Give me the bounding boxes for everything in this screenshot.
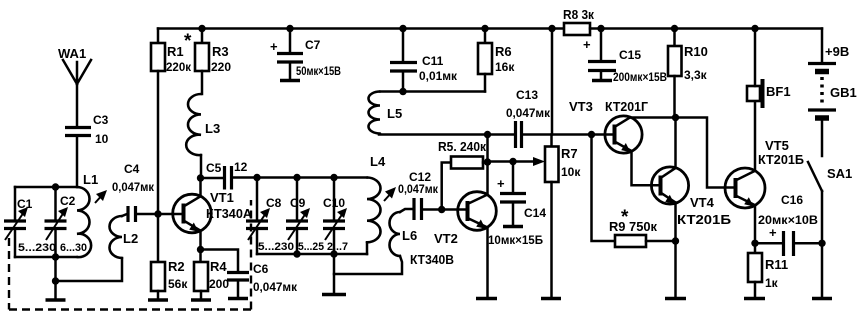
resistor R9 750k: [592, 135, 676, 248]
ground tank: [46, 281, 66, 300]
svg-text:R8 3к: R8 3к: [563, 7, 594, 22]
wire collector node to VT5 base: [676, 118, 736, 188]
resistor R2 56k: [151, 214, 188, 299]
ground R4: [191, 298, 211, 302]
resistor R4 200: [194, 259, 229, 299]
power rail right segment: [590, 27, 822, 30]
resistor R6 16k: [478, 29, 515, 92]
svg-text:С11: С11: [422, 54, 444, 68]
resistor R1 220k: [151, 29, 192, 215]
svg-text:C9: C9: [290, 196, 306, 210]
L4 tuning arrow: [384, 187, 396, 201]
inductor L1: [77, 172, 98, 257]
ground C15: [592, 79, 612, 83]
junction emitter C16 R11: [751, 240, 758, 247]
inductor L5: [369, 92, 403, 134]
capacitor C3 10: [65, 113, 109, 146]
junction rail R6: [481, 25, 488, 32]
svg-text:WA1: WA1: [58, 46, 86, 61]
svg-text:0,047мк: 0,047мк: [398, 184, 438, 196]
svg-text:20мк×10В: 20мк×10В: [758, 215, 818, 227]
svg-text:5...25: 5...25: [298, 241, 324, 253]
svg-text:R9 750к: R9 750к: [609, 219, 657, 234]
inductor L3: [186, 94, 220, 155]
svg-text:КТ340А: КТ340А: [206, 206, 253, 221]
wire VT3 emitter to VT4 base: [632, 151, 661, 185]
wire collector node to C14 and R7 wiper: [488, 160, 536, 163]
junction rail C15: [597, 25, 604, 32]
junction C2 top: [52, 183, 59, 190]
inductor L6: [334, 209, 417, 274]
svg-text:R10: R10: [684, 44, 708, 59]
svg-text:КТ201Б: КТ201Б: [677, 212, 731, 227]
svg-text:+: +: [769, 225, 777, 240]
resistor R3 220: [195, 29, 231, 95]
wire C3 to L1 top: [76, 137, 79, 187]
svg-text:L2: L2: [123, 231, 138, 246]
wire C4 to VT1 base: [136, 213, 184, 216]
wire L2 top to C4: [122, 214, 128, 216]
junction rail R10: [671, 25, 678, 32]
variable capacitor C1 5...230: [4, 197, 56, 254]
svg-text:10к: 10к: [561, 165, 581, 179]
L1 tuning arrow: [95, 190, 107, 203]
capacitor C6 0,047mk: [227, 262, 297, 297]
inductor L4: [367, 154, 386, 254]
svg-text:КТ201Г: КТ201Г: [605, 99, 649, 114]
svg-text:C12: C12: [409, 170, 431, 184]
wire VT2 collector: [486, 135, 489, 195]
svg-text:L3: L3: [205, 121, 220, 136]
transistor VT2 KT340V: [410, 192, 496, 267]
svg-text:R2: R2: [168, 259, 185, 274]
svg-text:3,3к: 3,3к: [684, 68, 708, 82]
wire L5 top to R6: [380, 90, 485, 93]
junction collector IF node: [484, 131, 491, 138]
svg-text:КТ201Б: КТ201Б: [758, 152, 804, 167]
inductor L2: [110, 216, 139, 258]
svg-text:VT1: VT1: [210, 190, 234, 205]
junction rail C11: [399, 25, 406, 32]
potentiometer R7 10k: [545, 135, 581, 298]
wire VT5 collector to BF1: [754, 101, 757, 171]
svg-text:0,047мк: 0,047мк: [253, 282, 297, 294]
ground C7: [280, 79, 300, 83]
svg-text:L6: L6: [402, 228, 417, 243]
capacitor C11 0,01mk: [390, 29, 457, 92]
battery GB1 +9V: [808, 44, 857, 156]
svg-text:0,047мк: 0,047мк: [112, 182, 154, 194]
wire antenna to C3: [76, 84, 79, 126]
wire tank bottom edge: [15, 256, 77, 259]
ground R7: [541, 297, 561, 301]
wire emitter to C6: [201, 250, 239, 272]
ground R11: [744, 297, 765, 301]
svg-text:C10: C10: [323, 196, 345, 210]
svg-text:0,01мк: 0,01мк: [419, 71, 457, 83]
transistor VT5 KT201B: [725, 138, 804, 208]
resistor R5 240k: [438, 139, 488, 210]
ground VT2: [476, 297, 497, 301]
svg-text:C1: C1: [17, 197, 33, 211]
trimmer capacitor C9 5...25: [286, 178, 324, 255]
resistor R10 3,3k: [668, 29, 708, 118]
svg-text:2...7: 2...7: [327, 241, 348, 253]
svg-text:L1: L1: [83, 172, 98, 187]
svg-text:C5: C5: [206, 161, 222, 175]
antenna WA1: [58, 46, 91, 84]
junction emitter node: [197, 246, 204, 253]
svg-text:C2: C2: [60, 194, 76, 208]
wire C12 to VT2 base: [422, 208, 468, 211]
svg-text:VT2: VT2: [434, 231, 458, 246]
junction C10 bottom ground stub: [330, 250, 337, 257]
power rail left segment: [158, 27, 564, 30]
junction C10 top: [330, 174, 337, 181]
svg-text:220к: 220к: [166, 60, 192, 74]
junction base node R1 R2: [154, 210, 161, 217]
dashed gang link C1-C8: [9, 200, 251, 310]
svg-text:12: 12: [234, 160, 248, 174]
trimmer capacitor C10 2...7: [323, 178, 348, 255]
svg-text:GB1: GB1: [830, 85, 857, 100]
svg-text:16к: 16к: [495, 60, 515, 74]
capacitor C7 50mk x 15V: [270, 29, 341, 80]
wire rail to R7 top: [551, 29, 554, 135]
svg-text:5...230: 5...230: [258, 241, 294, 253]
capacitor C4 0,047mk: [112, 162, 154, 222]
svg-text:R3: R3: [212, 44, 229, 59]
svg-text:10: 10: [95, 132, 109, 146]
junction C11 bottom L5: [399, 88, 406, 95]
junction rail R8 left: [548, 25, 555, 32]
capacitor C16 20mk x 10V: [755, 193, 822, 256]
junction collector R5 node: [484, 158, 491, 165]
svg-text:С13: С13: [516, 88, 538, 102]
junction rail C7: [286, 25, 293, 32]
junction R9 VT4 emitter: [672, 237, 679, 244]
svg-text:200: 200: [209, 277, 229, 291]
svg-text:6...30: 6...30: [60, 242, 87, 254]
svg-text:L5: L5: [387, 106, 402, 121]
junction VT3 base R9: [588, 131, 595, 138]
ground C14: [503, 225, 523, 229]
wire L2 bottom to ground node: [56, 258, 123, 281]
capacitor C13 0,047mk: [506, 88, 550, 148]
svg-text:КТ340В: КТ340В: [410, 252, 454, 267]
resistor R8 3k: [563, 7, 594, 35]
junction VT2 base R5: [438, 206, 445, 213]
ground VT4: [665, 297, 686, 301]
svg-text:C14: C14: [524, 206, 546, 220]
junction collectors R10: [672, 114, 679, 121]
svg-text:BF1: BF1: [766, 84, 791, 99]
wire VT4 emitter to ground: [674, 203, 677, 298]
svg-text:R4: R4: [210, 259, 227, 274]
ground SA1: [812, 297, 832, 301]
R7 wiper arrowhead: [533, 157, 545, 166]
transistor VT1 KT340A: [173, 190, 253, 233]
switch SA1: [808, 162, 852, 297]
svg-text:+9В: +9В: [825, 44, 849, 59]
wire IF line L5 to VT3 base: [379, 133, 615, 136]
wire C5 to tank top rail: [232, 176, 368, 179]
svg-text:50мк×15В: 50мк×15В: [296, 66, 341, 78]
svg-text:R5. 240к: R5. 240к: [438, 139, 486, 154]
svg-text:C7: C7: [305, 38, 321, 52]
svg-text:VT4: VT4: [690, 195, 715, 210]
capacitor C15 200mk x 15V: [583, 29, 667, 85]
transistor VT3 KT201G: [569, 99, 649, 153]
svg-text:56к: 56к: [168, 277, 188, 291]
svg-text:5...230: 5...230: [18, 242, 56, 254]
svg-text:R1: R1: [167, 44, 184, 59]
svg-text:*: *: [184, 31, 192, 52]
svg-text:+: +: [497, 176, 505, 191]
variable capacitor C8 5...230: [246, 178, 294, 255]
ground heterodyne tank: [322, 254, 346, 295]
wire tank left edge: [14, 187, 17, 220]
svg-text:VT3: VT3: [569, 99, 593, 114]
capacitor C12 0,047mk: [398, 170, 438, 220]
junction rail R3: [198, 25, 205, 32]
svg-text:L4: L4: [370, 154, 386, 169]
wire tank to ground node: [54, 257, 57, 281]
svg-text:200мк×15В: 200мк×15В: [613, 72, 667, 84]
junction SA1 C16: [818, 240, 825, 247]
junction rail BF1: [751, 25, 758, 32]
junction C2 bottom: [52, 253, 59, 260]
wire tank bottom rail: [257, 253, 367, 256]
junction tank ground node: [52, 277, 59, 284]
wire L3 to collector node: [199, 155, 202, 195]
svg-text:R11: R11: [765, 257, 788, 272]
junction VT1 collector node: [197, 174, 204, 181]
svg-text:C8: C8: [266, 196, 282, 210]
ground R2: [148, 298, 168, 302]
wire VT5 emitter: [754, 205, 757, 253]
wire tank left edge lower: [14, 230, 17, 258]
resistor R11 1k: [748, 253, 788, 297]
svg-text:+: +: [583, 37, 591, 52]
junction C9 top: [293, 174, 300, 181]
svg-text:220: 220: [211, 60, 231, 74]
svg-text:0,047мк: 0,047мк: [506, 108, 550, 120]
junction C14 top: [509, 158, 516, 165]
svg-text:R7: R7: [561, 146, 578, 161]
capacitor C5 12: [201, 160, 248, 190]
wire tank top edge: [15, 186, 77, 189]
junction C8 top: [253, 174, 260, 181]
wire VT2 emitter to ground: [486, 228, 489, 298]
svg-text:C6: C6: [253, 262, 269, 276]
junction C9 bottom: [293, 250, 300, 257]
earphone BF1: [747, 29, 791, 109]
svg-text:C3: C3: [93, 113, 109, 127]
svg-text:+: +: [270, 39, 278, 54]
transistor VT4 KT201B: [651, 167, 731, 227]
svg-text:1к: 1к: [765, 276, 779, 290]
ground C6: [228, 297, 248, 301]
wire VT1 emitter: [199, 231, 202, 262]
svg-text:C16: C16: [781, 193, 803, 207]
svg-text:VT5: VT5: [765, 138, 789, 153]
svg-text:C4: C4: [124, 162, 140, 176]
svg-text:10мк×15Б: 10мк×15Б: [488, 235, 543, 247]
wire VT4 collector: [674, 118, 677, 169]
capacitor C14 10mk x 15V: [488, 162, 546, 248]
svg-text:C15: C15: [619, 48, 641, 62]
trimmer capacitor C2 6...30: [45, 187, 88, 257]
svg-text:SA1: SA1: [827, 166, 852, 181]
svg-text:R6: R6: [495, 44, 512, 59]
wire rail corner to battery: [821, 29, 824, 63]
wire VT3 collector: [630, 116, 676, 119]
